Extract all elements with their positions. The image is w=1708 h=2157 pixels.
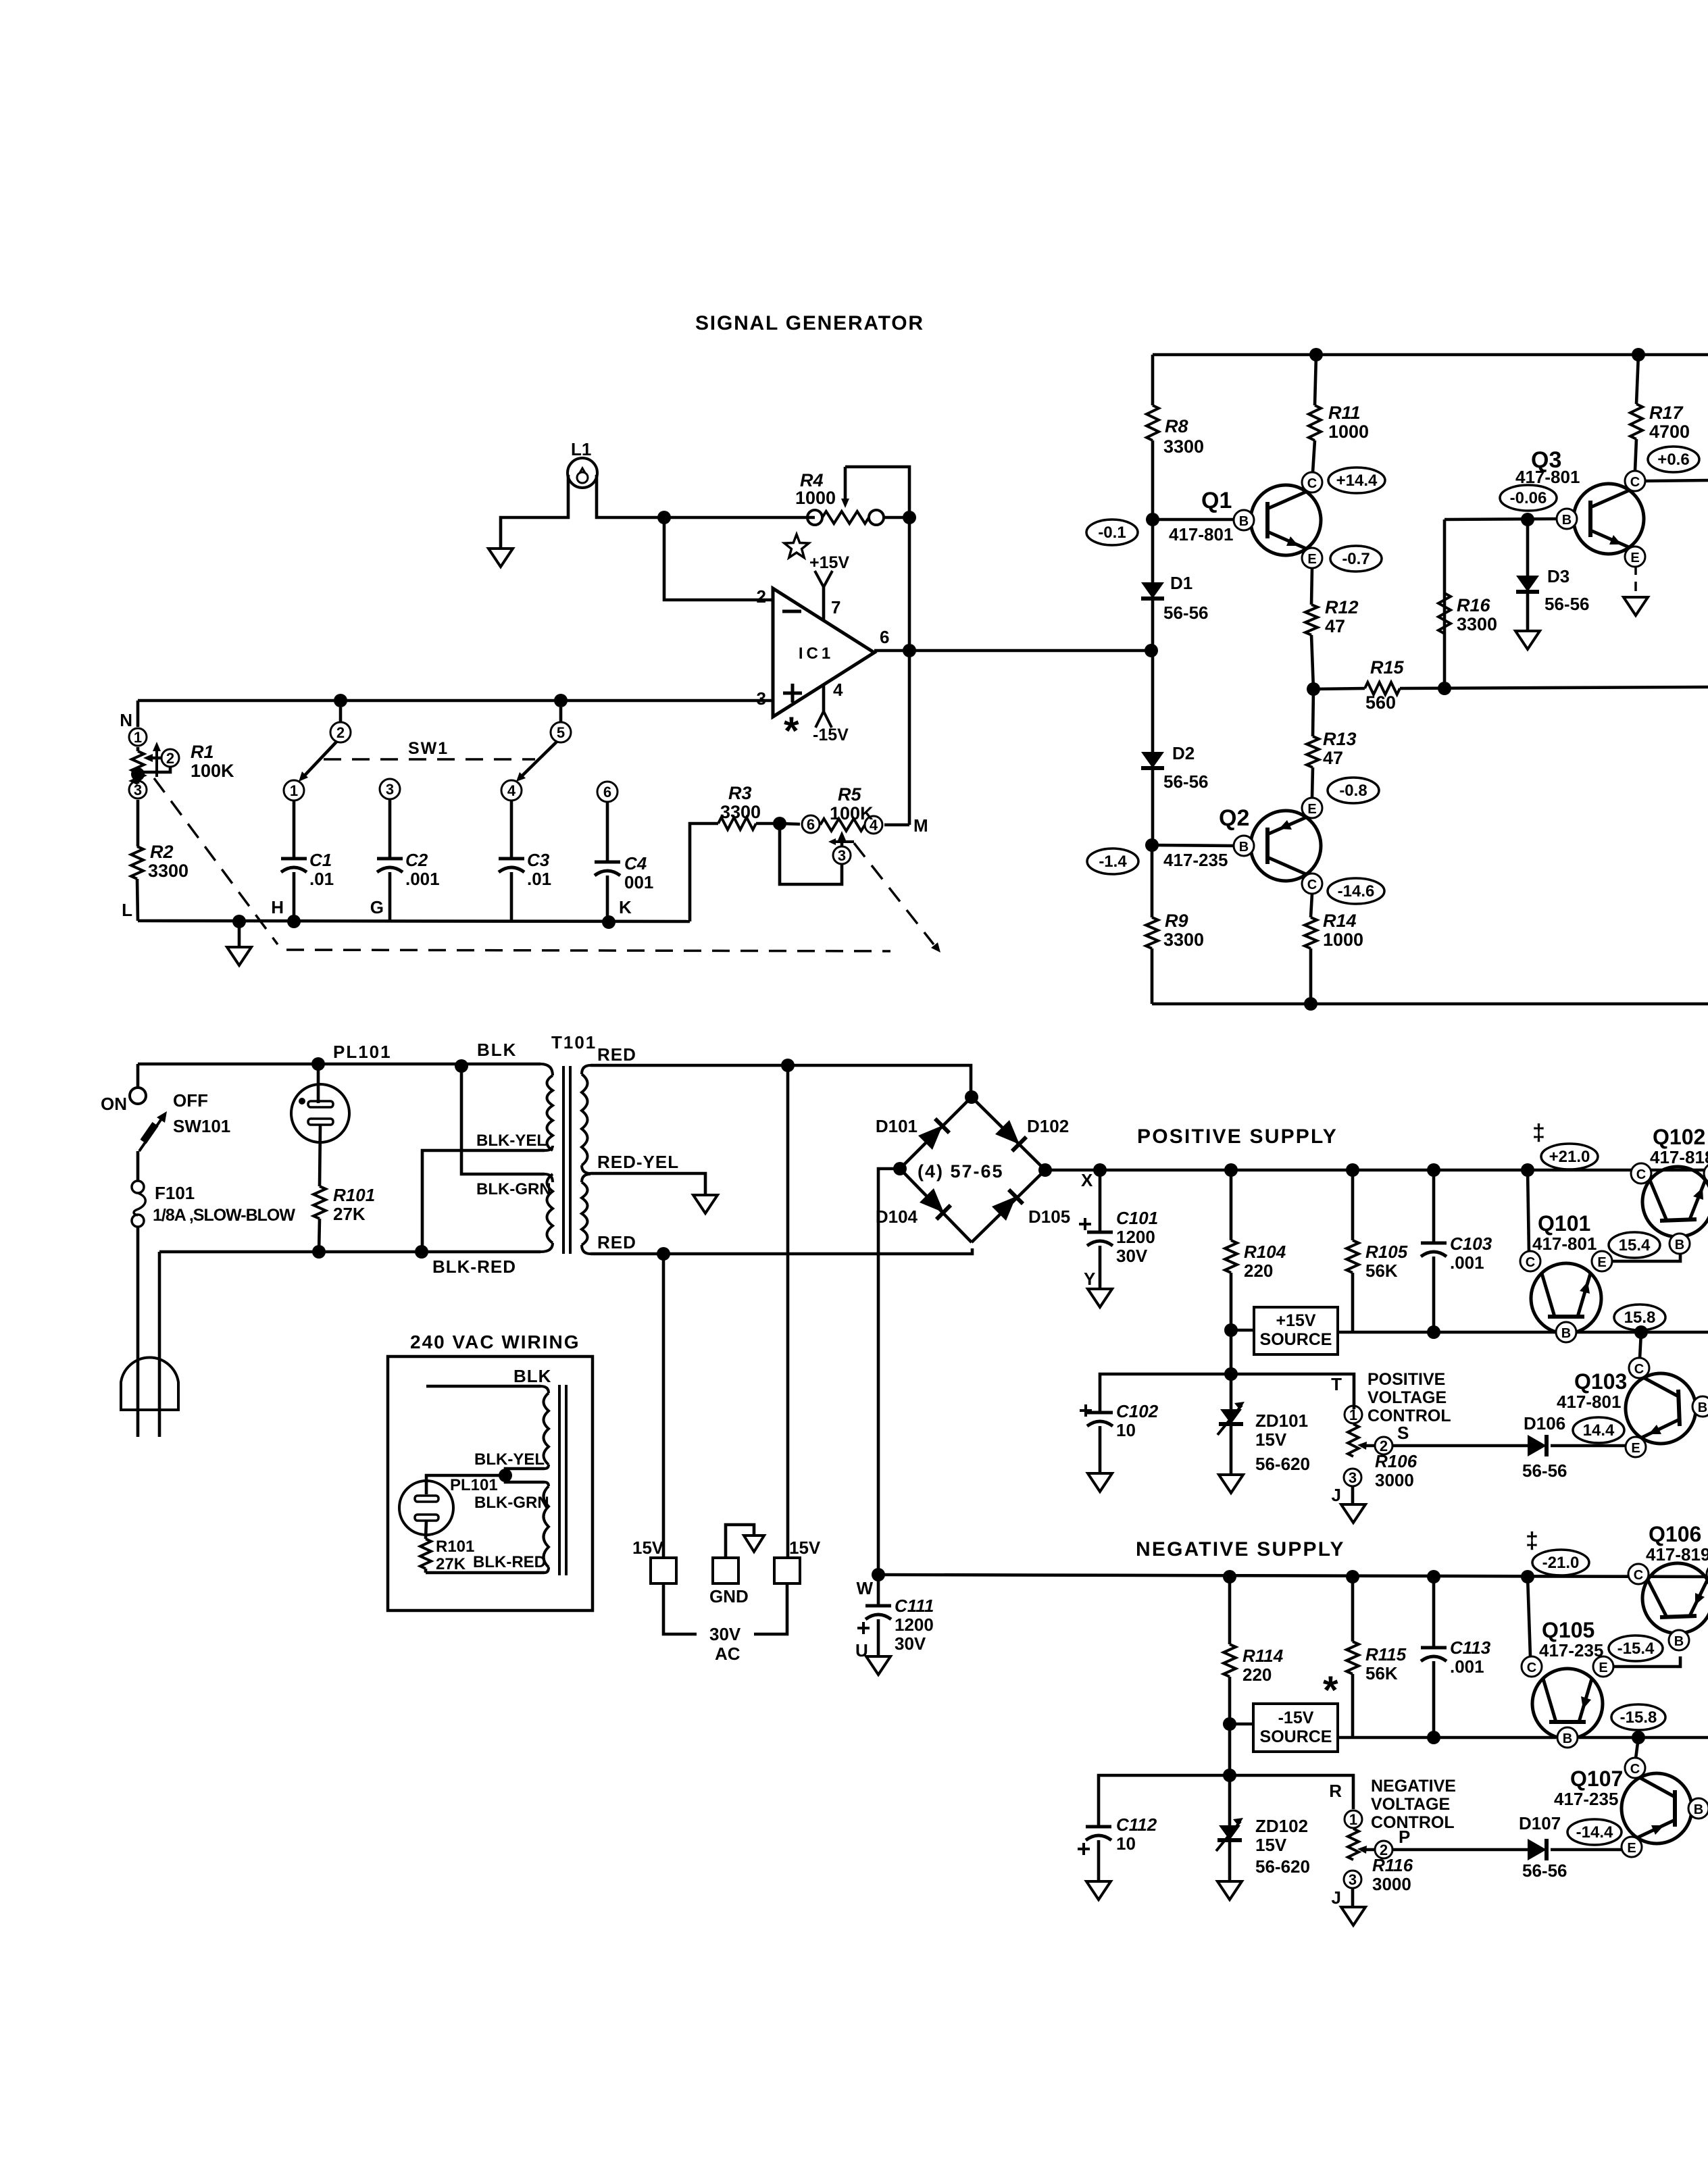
svg-text:10: 10 [1116, 1420, 1136, 1440]
transistor Q2 [1251, 811, 1321, 881]
node PL101 top [311, 1057, 325, 1071]
svg-text:3000: 3000 [1375, 1470, 1414, 1490]
resistor R8 [1151, 355, 1155, 405]
svg-text:3: 3 [1349, 1469, 1357, 1486]
R1 wiper arm circled 2 [147, 757, 161, 760]
svg-text:3300: 3300 [1163, 930, 1204, 950]
wire to C102 [1100, 1374, 1231, 1413]
svg-text:D104: D104 [876, 1207, 918, 1227]
node Q1 base [1146, 513, 1159, 526]
node rail R14 [1304, 997, 1317, 1011]
svg-text:30V: 30V [709, 1624, 741, 1644]
wire L1 left lead to ground [501, 475, 568, 549]
svg-text:‡: ‡ [1526, 1528, 1538, 1554]
contact circled 1 [284, 780, 304, 801]
wire AC line bottom [159, 1250, 541, 1254]
svg-text:IC1: IC1 [799, 644, 834, 663]
svg-text:E: E [1630, 551, 1639, 565]
svg-text:G: G [370, 897, 384, 917]
wire BLK-RED box [426, 1571, 545, 1575]
svg-text:R1: R1 [191, 742, 214, 762]
wire base to Q2 [1152, 845, 1235, 846]
svg-text:BLK-GRN: BLK-GRN [476, 1180, 551, 1198]
capacitor C2 [388, 799, 392, 859]
bridge right vertex [1038, 1163, 1052, 1177]
wire AC line top [138, 1063, 541, 1066]
svg-text:3: 3 [134, 782, 142, 798]
node signal injection [1145, 644, 1158, 657]
svg-text:27K: 27K [436, 1555, 466, 1573]
diode D1 [1151, 519, 1155, 582]
svg-text:R105: R105 [1365, 1242, 1408, 1262]
box 240 VAC WIRING [388, 1356, 593, 1610]
R116 wiper circled 2 [1361, 1848, 1375, 1852]
wire to C112 [1099, 1775, 1230, 1827]
svg-text:56-56: 56-56 [1163, 771, 1209, 792]
svg-text:.001: .001 [405, 869, 440, 889]
pin 6 output wire [874, 649, 1151, 653]
svg-text:R17: R17 [1649, 403, 1684, 423]
node box tap junction [499, 1469, 512, 1482]
wire rail to Q101 collector [1528, 1170, 1529, 1252]
svg-text:BLK: BLK [477, 1040, 517, 1060]
svg-text:15.8: 15.8 [1624, 1309, 1656, 1327]
svg-text:-1.4: -1.4 [1099, 853, 1127, 871]
capacitor C101 [1099, 1170, 1102, 1232]
zener diode ZD101 [1230, 1374, 1233, 1409]
svg-text:47: 47 [1325, 616, 1345, 636]
svg-text:417-235: 417-235 [1163, 850, 1228, 870]
svg-text:POSITIVE: POSITIVE [1367, 1370, 1445, 1389]
bridge left vertex node W wire [893, 1162, 907, 1175]
svg-text:3300: 3300 [1457, 614, 1497, 634]
node W [872, 1568, 885, 1581]
ground below R106 [1341, 1504, 1365, 1523]
svg-text:C: C [1527, 1660, 1536, 1675]
svg-text:4700: 4700 [1649, 422, 1690, 442]
svg-text:+0.6: +0.6 [1657, 451, 1689, 469]
potentiometer R116 circled 1 [1345, 1810, 1362, 1828]
svg-text:6: 6 [807, 816, 815, 833]
svg-text:W: W [856, 1578, 873, 1598]
svg-text:-15.8: -15.8 [1620, 1708, 1657, 1727]
svg-text:C: C [1630, 1762, 1640, 1777]
diode D104 [920, 1188, 944, 1213]
transistor Q1 [1251, 485, 1321, 555]
transistor Q105 [1532, 1669, 1603, 1739]
pin 4 lead -15V [822, 684, 826, 711]
voltage -21.0 [1532, 1550, 1589, 1575]
wire tap to PL101 box [426, 1475, 505, 1494]
svg-text:SW101: SW101 [173, 1116, 230, 1136]
svg-text:Q1: Q1 [1201, 488, 1232, 513]
node R15-R16 junction [1438, 682, 1451, 695]
svg-text:D1: D1 [1170, 573, 1192, 593]
svg-text:-21.0: -21.0 [1542, 1554, 1580, 1572]
voltage -0.7 [1330, 546, 1382, 572]
wire RED bottom [591, 1248, 972, 1254]
voltage -0.06 [1500, 485, 1557, 511]
svg-text:E: E [1307, 802, 1316, 817]
svg-text:1000: 1000 [1328, 422, 1369, 442]
svg-text:-14.4: -14.4 [1576, 1823, 1613, 1842]
contact circled 4 [501, 780, 522, 801]
svg-text:R16: R16 [1457, 595, 1491, 615]
node bus Q103 collector [1634, 1325, 1648, 1339]
terminal GND [726, 1525, 754, 1558]
diode D101 [918, 1125, 943, 1150]
svg-text:C103: C103 [1450, 1234, 1492, 1254]
wire K up to R3 [690, 823, 718, 921]
svg-text:R8: R8 [1165, 416, 1188, 436]
wire fuse to plug [136, 1227, 140, 1437]
svg-text:D2: D2 [1172, 743, 1195, 763]
svg-text:J: J [1332, 1887, 1341, 1908]
resistor R15 [1313, 688, 1365, 689]
ground below C102 [1088, 1473, 1112, 1492]
capacitor C113 [1432, 1577, 1436, 1648]
svg-text:+14.4: +14.4 [1336, 472, 1378, 490]
svg-text:R5: R5 [838, 784, 861, 805]
pin 7 lead +15V [822, 587, 826, 619]
svg-text:100K: 100K [191, 761, 234, 781]
svg-text:100K: 100K [830, 803, 874, 823]
resistor R3 [718, 817, 756, 830]
svg-text:R3: R3 [728, 783, 752, 803]
resistor R9 [1151, 845, 1154, 917]
svg-text:C: C [1526, 1255, 1535, 1270]
wire 30V AC bracket right [754, 1583, 787, 1634]
svg-text:L1: L1 [571, 439, 591, 459]
node RED bottom junction [657, 1247, 670, 1261]
svg-text:15V: 15V [789, 1538, 821, 1558]
svg-text:ZD101: ZD101 [1255, 1411, 1308, 1431]
wire rail to Q105 collector [1528, 1577, 1530, 1656]
svg-text:4: 4 [507, 782, 516, 799]
wire BLK-YEL tap to BLK-RED [422, 1150, 545, 1252]
svg-text:J: J [1332, 1485, 1341, 1505]
switch SW101 ON contact [136, 1064, 140, 1088]
resistor R101 box [426, 1521, 426, 1539]
node SW1 pos5 junction [554, 694, 568, 707]
svg-text:C102: C102 [1116, 1401, 1159, 1421]
resistor R14 [1311, 894, 1312, 917]
ground below C112 [1086, 1881, 1111, 1900]
svg-text:T101: T101 [551, 1032, 597, 1052]
svg-text:SW1: SW1 [408, 739, 449, 758]
svg-text:15V: 15V [632, 1538, 664, 1558]
svg-text:15.4: 15.4 [1619, 1236, 1651, 1254]
svg-text:417-819: 417-819 [1646, 1544, 1708, 1565]
svg-text:Q101: Q101 [1538, 1211, 1590, 1236]
voltage -1.4 [1087, 848, 1138, 874]
svg-text:R: R [1329, 1781, 1342, 1801]
svg-text:R2: R2 [150, 842, 174, 862]
svg-text:BLK: BLK [513, 1366, 551, 1386]
resistor R101 [320, 1125, 320, 1186]
svg-text:1: 1 [1349, 1406, 1357, 1423]
node bus C113 bottom [1427, 1731, 1440, 1744]
svg-text:56-56: 56-56 [1522, 1860, 1567, 1881]
svg-text:C: C [1634, 1362, 1644, 1377]
bridge edge D105 [972, 1170, 1045, 1242]
capacitor C4 [606, 802, 609, 862]
svg-text:D105: D105 [1028, 1207, 1070, 1227]
svg-text:C2: C2 [405, 850, 428, 870]
diode D3 [1526, 519, 1530, 576]
node R1 bottom junction [131, 767, 145, 781]
svg-text:PL101: PL101 [333, 1042, 392, 1062]
svg-text:H: H [271, 897, 284, 917]
wire D106 to Q103 emitter [1551, 1444, 1628, 1448]
transistor Q107 [1622, 1773, 1692, 1844]
switch arm contact 5 [559, 707, 563, 722]
svg-text:3300: 3300 [1163, 436, 1204, 457]
svg-text:3300: 3300 [148, 861, 189, 881]
svg-text:C4: C4 [624, 853, 647, 873]
svg-text:BLK-YEL: BLK-YEL [476, 1132, 547, 1150]
svg-text:GND: GND [709, 1586, 749, 1606]
svg-text:C111: C111 [895, 1596, 934, 1616]
transistor Q101 [1531, 1263, 1601, 1334]
svg-text:VOLTAGE: VOLTAGE [1371, 1795, 1450, 1814]
transformer T101 core [563, 1066, 570, 1254]
svg-text:NEGATIVE SUPPLY: NEGATIVE SUPPLY [1136, 1538, 1345, 1560]
bridge edge D101 [900, 1097, 972, 1169]
svg-text:AC: AC [715, 1644, 740, 1664]
node rail R104 [1224, 1163, 1238, 1177]
svg-text:D106: D106 [1524, 1413, 1565, 1433]
svg-text:C101: C101 [1116, 1208, 1158, 1228]
R106 wiper circled 2 [1361, 1444, 1375, 1448]
wire L1 right lead [597, 475, 664, 517]
node L1-R4 junction [657, 511, 671, 524]
svg-text:S: S [1397, 1423, 1409, 1443]
transformer T101 primary 1 [547, 1075, 553, 1150]
wire -15V bus [1338, 1736, 1556, 1740]
svg-text:5: 5 [557, 724, 565, 741]
node BLK junction [455, 1059, 468, 1073]
svg-text:Q102: Q102 [1653, 1125, 1705, 1149]
box transformer primary [544, 1393, 549, 1465]
svg-text:R13: R13 [1323, 729, 1357, 749]
svg-text:417-801: 417-801 [1169, 524, 1233, 544]
node R104 +15V tap [1224, 1323, 1238, 1337]
wire R114 to source box [1230, 1723, 1253, 1726]
svg-text:R101: R101 [436, 1538, 474, 1556]
diode D102 [995, 1120, 1020, 1144]
wire to negative voltage control [1230, 1775, 1353, 1809]
svg-text:R12: R12 [1325, 597, 1359, 617]
potentiometer R1 [136, 747, 140, 751]
svg-text:56K: 56K [1365, 1663, 1398, 1683]
svg-text:CONTROL: CONTROL [1367, 1406, 1451, 1425]
ground below D3 [1515, 631, 1540, 649]
svg-text:.01: .01 [527, 869, 551, 889]
svg-text:R116: R116 [1372, 1855, 1413, 1875]
SW1 dashed bar [324, 758, 535, 761]
resistor R17 [1636, 355, 1638, 404]
svg-text:SIGNAL GENERATOR: SIGNAL GENERATOR [695, 312, 924, 334]
node R101 bottom [312, 1245, 326, 1259]
transformer T101 secondary [582, 1074, 588, 1165]
svg-text:X: X [1081, 1170, 1093, 1190]
capacitor C3 [510, 801, 513, 859]
svg-text:+15V: +15V [1276, 1311, 1315, 1330]
svg-text:417-801: 417-801 [1532, 1234, 1597, 1254]
svg-text:56-620: 56-620 [1255, 1856, 1310, 1877]
wire Q3 collector output [1645, 480, 1708, 481]
ground below Q3 emitter [1624, 597, 1648, 615]
node rail R105 [1346, 1163, 1359, 1177]
svg-text:BLK-YEL: BLK-YEL [474, 1450, 545, 1469]
wire BLK-YEL tap box [505, 1469, 545, 1482]
voltage 15.8 [1614, 1304, 1665, 1330]
terminal 15V right [786, 1065, 790, 1558]
svg-text:15V: 15V [1255, 1429, 1287, 1450]
wire R104 to source box [1231, 1329, 1254, 1332]
svg-text:1: 1 [290, 782, 298, 799]
svg-text:RED-YEL: RED-YEL [597, 1152, 679, 1172]
svg-text:N: N [120, 710, 132, 730]
svg-text:10: 10 [1116, 1833, 1136, 1854]
svg-text:+21.0: +21.0 [1549, 1148, 1590, 1166]
wire R5 to node M [884, 823, 909, 827]
svg-text:R9: R9 [1165, 911, 1188, 931]
diode D105 [992, 1196, 1016, 1221]
voltage -0.1 [1086, 519, 1138, 545]
diode D107 [1528, 1839, 1547, 1860]
svg-text:560: 560 [1365, 692, 1396, 713]
svg-text:2: 2 [336, 724, 345, 741]
svg-text:56-56: 56-56 [1163, 603, 1209, 623]
neon lamp PL101 [317, 1064, 320, 1103]
lamp L1 [568, 458, 597, 488]
svg-text:-0.1: -0.1 [1098, 524, 1126, 542]
svg-text:E: E [1307, 552, 1316, 567]
svg-text:2: 2 [1380, 1842, 1388, 1858]
svg-text:POSITIVE SUPPLY: POSITIVE SUPPLY [1137, 1125, 1338, 1148]
box +15V SOURCE [1254, 1307, 1338, 1354]
AC plug [121, 1358, 178, 1410]
wire 30V AC bracket left [663, 1583, 697, 1634]
node rail R11 [1309, 348, 1323, 361]
voltage -14.6 [1328, 878, 1384, 904]
R5 wiper arm circled 3 [840, 835, 844, 846]
wire bottom to plug [158, 1252, 161, 1437]
svg-text:BLK-GRN: BLK-GRN [474, 1494, 549, 1512]
svg-text:R104: R104 [1244, 1242, 1286, 1262]
voltage 15.4 [1609, 1232, 1660, 1258]
wire to positive voltage control [1231, 1374, 1354, 1409]
svg-text:OFF: OFF [173, 1090, 208, 1111]
wire inverting input from junction [664, 517, 773, 600]
node rail C103 [1427, 1163, 1440, 1177]
Q3 emitter lead to ground [1634, 567, 1637, 591]
switch SW1 dashed frame [154, 778, 278, 944]
svg-text:4: 4 [833, 680, 843, 700]
svg-text:R115: R115 [1365, 1644, 1407, 1665]
wire bottom bus L-H-G-K [138, 921, 690, 921]
contact circled 3 [380, 779, 400, 799]
ground below bottom bus [238, 921, 241, 947]
capacitor C102 [1080, 1404, 1092, 1417]
node R114 C112 tap [1223, 1769, 1236, 1782]
svg-text:1: 1 [1349, 1811, 1357, 1828]
svg-text:220: 220 [1242, 1665, 1272, 1685]
svg-text:-15.4: -15.4 [1617, 1640, 1655, 1658]
svg-text:1/8A ,SLOW-BLOW: 1/8A ,SLOW-BLOW [153, 1206, 295, 1225]
resistor R105 [1351, 1170, 1355, 1240]
svg-text:14.4: 14.4 [1583, 1421, 1615, 1440]
box -15V SOURCE [1253, 1704, 1338, 1752]
svg-text:(4) 57-65: (4) 57-65 [918, 1161, 1004, 1182]
wire non-inverting input bus [138, 699, 773, 703]
svg-text:L: L [122, 900, 132, 920]
bridge rectifier top vertex [965, 1090, 978, 1104]
node X [1093, 1163, 1107, 1177]
wire Q101 emitter to Q102 base [1612, 1254, 1680, 1261]
svg-text:15V: 15V [1255, 1835, 1287, 1855]
capacitor C111 [877, 1575, 880, 1606]
node output junction at feedback [903, 644, 916, 657]
svg-text:R114: R114 [1242, 1646, 1284, 1666]
ground below ZD102 [1217, 1881, 1242, 1900]
potentiometer R5 circled 6 [780, 823, 800, 824]
svg-text:E: E [1631, 1441, 1640, 1456]
star symbol [784, 534, 809, 557]
switch arm 2-1 [302, 741, 337, 778]
terminal circled 3 below R1 [136, 780, 140, 784]
wire top +15 rail [1153, 353, 1708, 357]
node rail R114 [1223, 1570, 1236, 1583]
svg-text:Q2: Q2 [1219, 805, 1249, 831]
svg-text:D107: D107 [1519, 1813, 1561, 1833]
voltage +0.6 [1648, 447, 1699, 472]
svg-text:E: E [1597, 1255, 1606, 1270]
svg-text:Q107: Q107 [1570, 1767, 1623, 1791]
wire wiper to D107 [1392, 1848, 1528, 1852]
ground RED-YEL [693, 1195, 718, 1213]
node rail R115 [1346, 1570, 1359, 1583]
ground below L1 [488, 549, 513, 567]
svg-text:C: C [1630, 475, 1640, 490]
voltage -0.8 [1328, 778, 1379, 803]
voltage 14.4 [1573, 1417, 1624, 1443]
switch arm contact 2 [339, 707, 343, 722]
SW101 blade [139, 1116, 164, 1151]
wire bridge to X [1045, 1169, 1100, 1172]
svg-text:417-801: 417-801 [1557, 1392, 1621, 1412]
svg-text:240 VAC WIRING: 240 VAC WIRING [410, 1331, 580, 1352]
node R104 C102 tap [1224, 1367, 1238, 1381]
svg-text:B: B [1562, 513, 1572, 528]
svg-text:B: B [1674, 1634, 1684, 1649]
node rail R17 [1632, 348, 1645, 361]
transistor Q106 [1642, 1563, 1708, 1633]
resistor R104 [1230, 1170, 1233, 1240]
svg-text:E: E [1599, 1660, 1607, 1675]
neon lamp PL101 box [399, 1481, 453, 1535]
svg-text:CONTROL: CONTROL [1371, 1813, 1455, 1832]
wire positive rail [1100, 1169, 1708, 1172]
wire circled3 to ground J negative [1351, 1888, 1355, 1906]
svg-text:SOURCE: SOURCE [1260, 1727, 1332, 1746]
transistor Q3 [1574, 484, 1644, 554]
node bus Q107 collector [1632, 1731, 1645, 1744]
svg-text:BLK-RED: BLK-RED [432, 1257, 516, 1277]
voltage -14.4 [1567, 1819, 1622, 1845]
